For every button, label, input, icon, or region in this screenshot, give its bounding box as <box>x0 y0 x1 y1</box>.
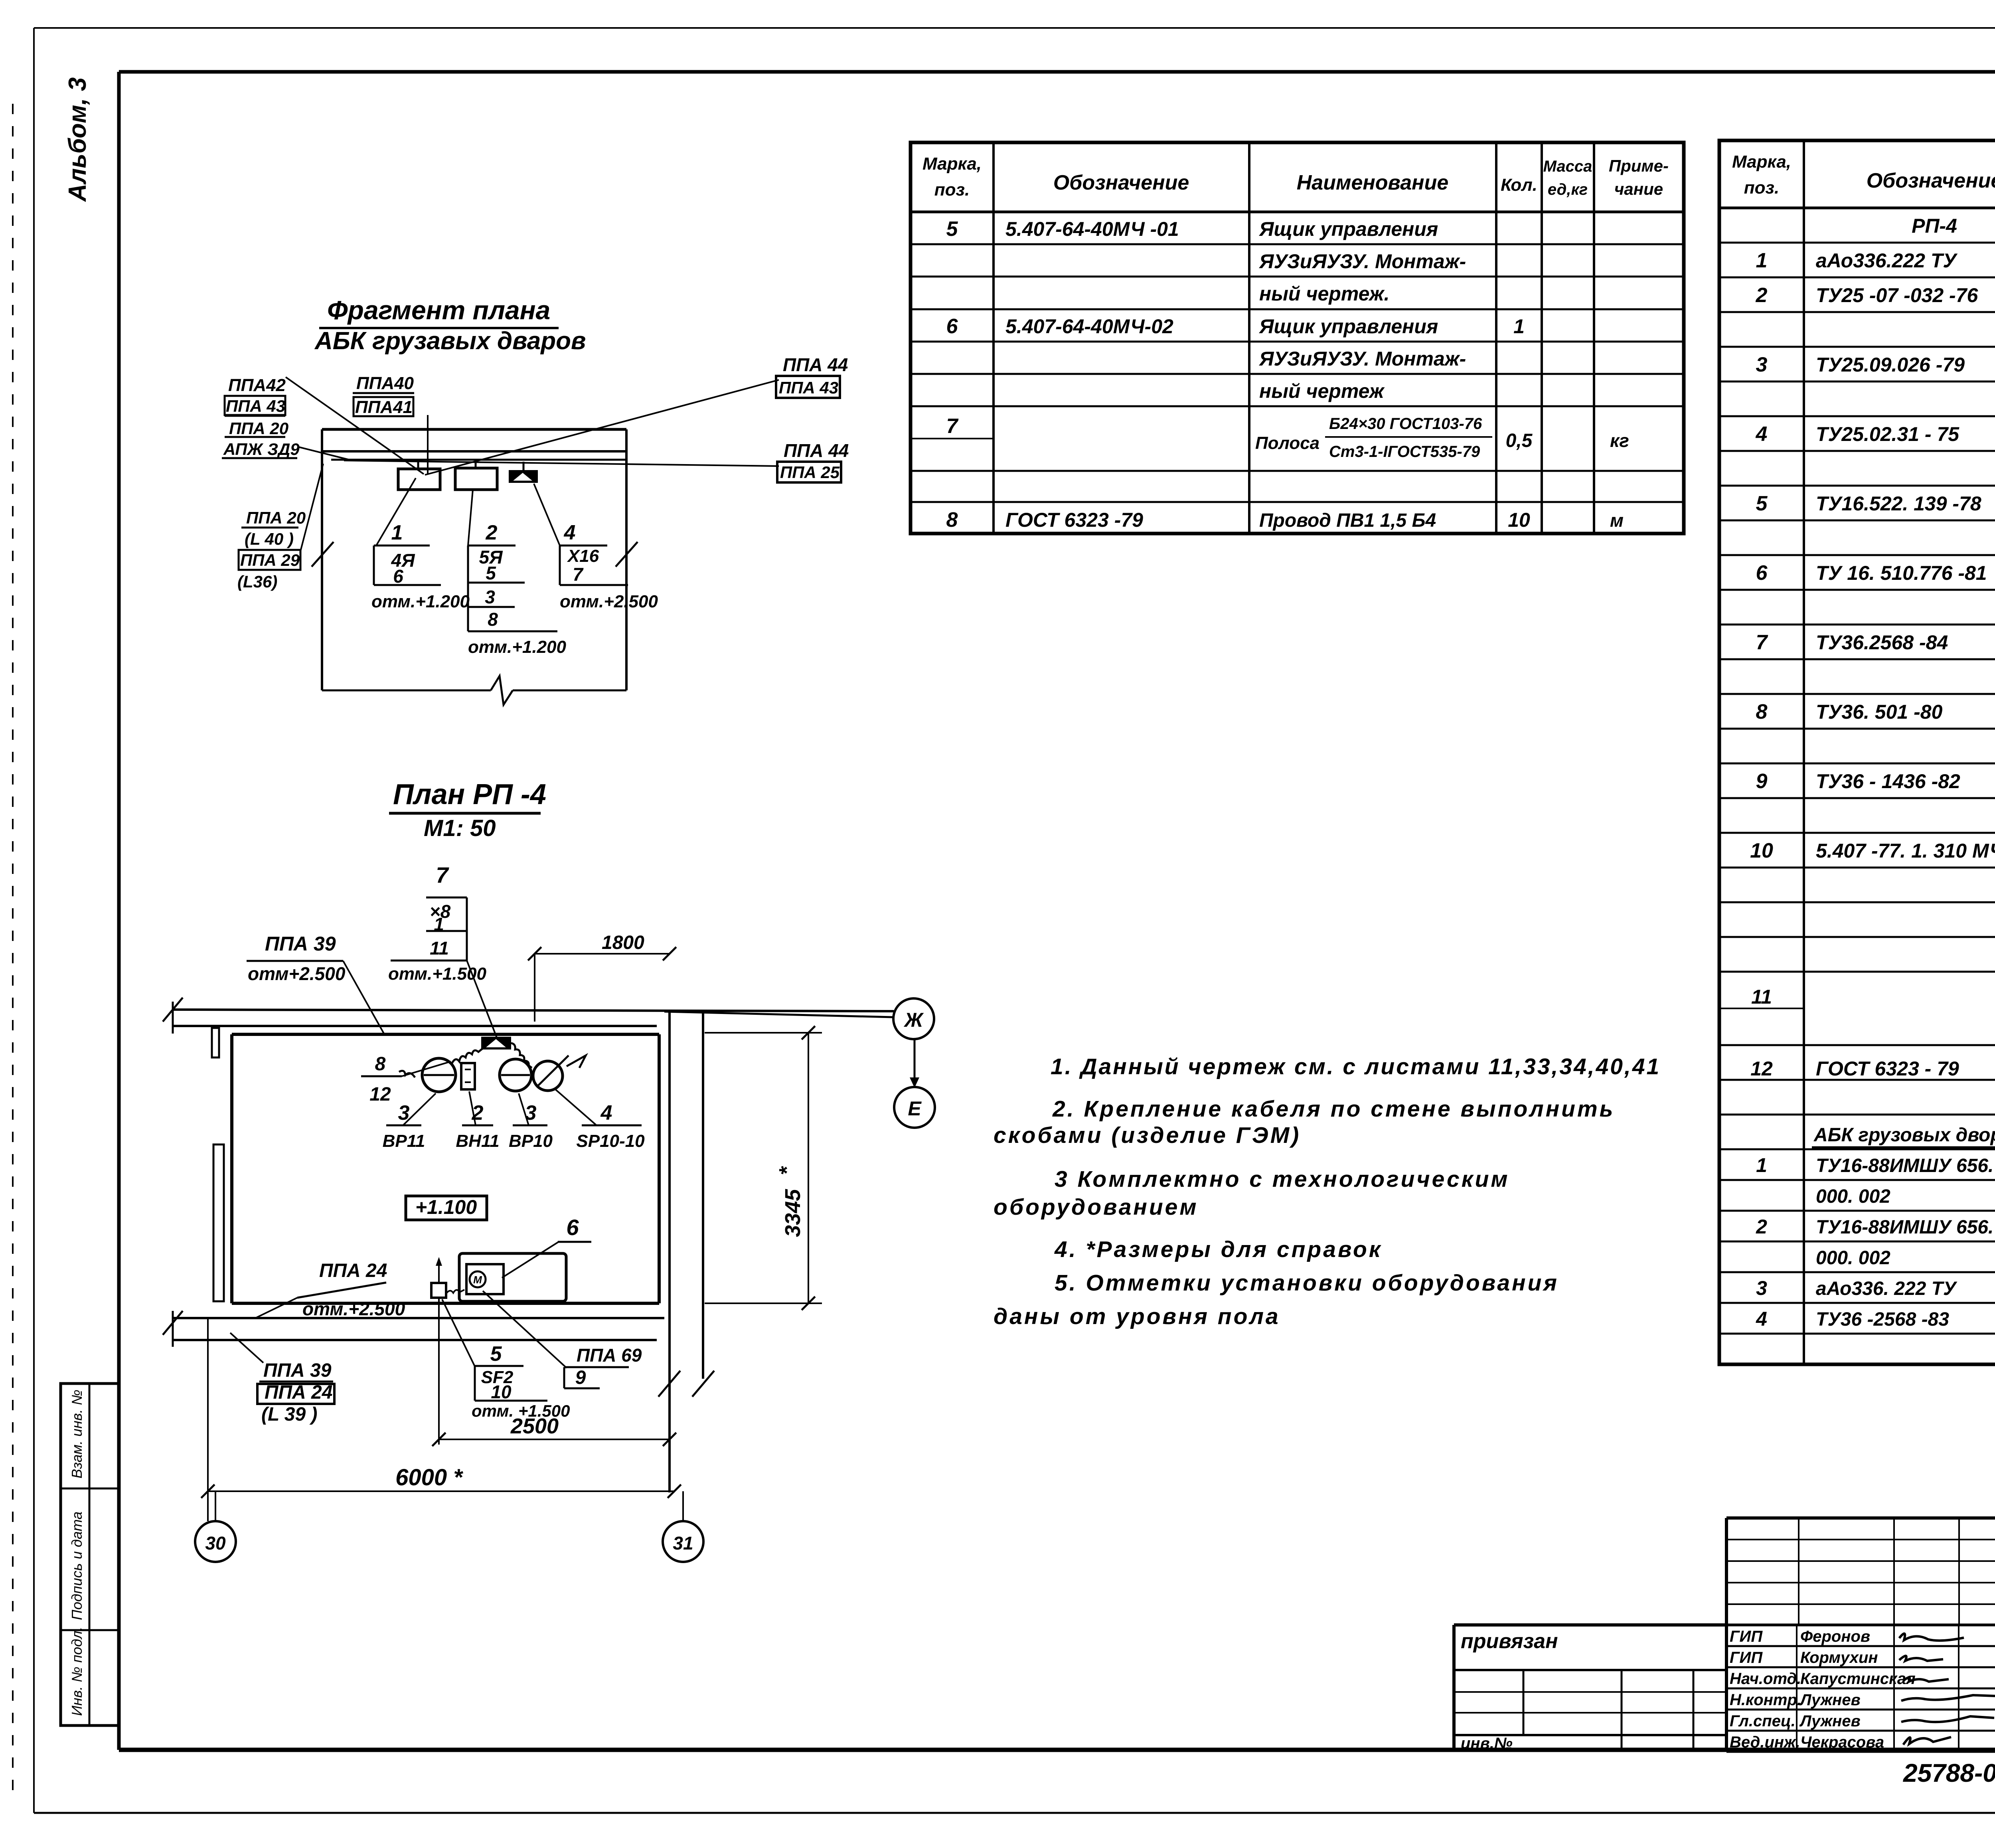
svg-text:5: 5 <box>946 217 958 241</box>
svg-text:2500: 2500 <box>510 1414 559 1438</box>
svg-text:3: 3 <box>1756 1277 1767 1299</box>
plan marker 7 ladder <box>388 862 497 1038</box>
svg-text:000. 002: 000. 002 <box>1816 1247 1890 1269</box>
plan dimension 6000 <box>201 1317 681 1521</box>
svg-text:3345: 3345 <box>781 1189 805 1237</box>
svg-text:7: 7 <box>436 862 449 887</box>
svg-text:2: 2 <box>486 521 498 544</box>
svg-text:чание: чание <box>1614 180 1663 198</box>
fragment marker 4 ladder <box>560 521 658 611</box>
svg-text:8: 8 <box>375 1053 386 1075</box>
svg-text:Феронов: Феронов <box>1800 1628 1870 1645</box>
svg-text:Наименование: Наименование <box>1297 171 1449 194</box>
plan leaders to bottom markers <box>439 1291 567 1445</box>
fragment leader lines <box>286 377 779 553</box>
svg-text:12: 12 <box>1750 1057 1773 1080</box>
svg-text:поз.: поз. <box>934 180 970 200</box>
svg-text:11: 11 <box>1751 986 1772 1008</box>
svg-text:Марка,: Марка, <box>922 154 982 174</box>
plan marker 6 <box>502 1215 591 1278</box>
svg-text:3 Комплектно с технологич: 3 Комплектно с технологическим <box>1055 1166 1510 1192</box>
svg-text:ГОСТ 6323 - 79: ГОСТ 6323 - 79 <box>1816 1057 1959 1080</box>
svg-text:3: 3 <box>485 587 495 607</box>
svg-text:SP10-10: SP10-10 <box>576 1131 645 1151</box>
svg-text:4: 4 <box>600 1101 612 1125</box>
svg-text:9: 9 <box>575 1367 586 1388</box>
svg-text:2. Крепление кабеля по ст: 2. Крепление кабеля по стене выполнить <box>1052 1096 1615 1122</box>
svg-text:ППА 43: ППА 43 <box>226 397 285 415</box>
svg-text:6: 6 <box>393 566 403 587</box>
svg-text:Ст3-1-IГОСТ535-79: Ст3-1-IГОСТ535-79 <box>1329 443 1480 461</box>
svg-text:поз.: поз. <box>1744 178 1779 198</box>
svg-text:ВР11: ВР11 <box>383 1131 425 1151</box>
svg-text:отм+2.500: отм+2.500 <box>248 963 346 984</box>
svg-text:Провод ПВ1 1,5 Б4: Провод ПВ1 1,5 Б4 <box>1259 510 1436 531</box>
left table strip row 7 (Polosa) <box>911 415 1629 461</box>
svg-text:Гл.спец.: Гл.спец. <box>1730 1712 1795 1730</box>
svg-text:ППА41: ППА41 <box>355 397 413 417</box>
svg-text:2: 2 <box>1756 284 1768 307</box>
svg-text:Взам. инв. №: Взам. инв. № <box>69 1389 85 1478</box>
fragment label PPA42 stack <box>222 376 300 459</box>
device valve VR11 <box>422 1058 456 1092</box>
svg-text:ТУ25 -07 -032 -76: ТУ25 -07 -032 -76 <box>1816 284 1978 306</box>
svg-text:ВР10: ВР10 <box>509 1131 553 1151</box>
svg-text:отм.+2.500: отм.+2.500 <box>560 592 658 611</box>
svg-text:Ящик управления: Ящик управления <box>1258 315 1438 338</box>
svg-text:8: 8 <box>488 609 498 630</box>
plan dimension 3345 <box>705 1026 822 1310</box>
svg-text:Обозначение: Обозначение <box>1867 169 1995 192</box>
plan dimension 1800 <box>528 932 676 1022</box>
svg-text:ППА40: ППА40 <box>356 374 414 393</box>
fragment device box 1 <box>398 462 440 490</box>
device valve VR10 <box>500 1059 531 1091</box>
svg-text:ППА 20: ППА 20 <box>246 508 306 527</box>
plan label PPA39 otm+2.500 <box>247 933 385 1036</box>
page edge dashed line <box>12 104 14 1796</box>
svg-text:кг: кг <box>1610 430 1629 451</box>
svg-text:Марка,: Марка, <box>1732 152 1791 172</box>
plan lower corridor walls <box>163 1311 664 1347</box>
plan device labels row <box>383 1089 645 1151</box>
svg-text:отм.+2.500: отм.+2.500 <box>302 1299 405 1319</box>
album label <box>64 77 91 202</box>
svg-text:9: 9 <box>1756 770 1768 793</box>
svg-text:31: 31 <box>673 1533 693 1554</box>
svg-text:10: 10 <box>491 1382 512 1402</box>
grid circle Zh <box>664 998 934 1039</box>
svg-text:ТУ16.522. 139 -78: ТУ16.522. 139 -78 <box>1816 492 1981 515</box>
svg-text:6: 6 <box>1756 561 1768 585</box>
svg-text:000. 002: 000. 002 <box>1816 1186 1890 1207</box>
svg-text:ППА 44: ППА 44 <box>783 354 848 375</box>
svg-text:ППА 20: ППА 20 <box>229 419 288 438</box>
svg-text:Альбом, 3: Альбом, 3 <box>64 77 91 202</box>
svg-text:ный чертеж: ный чертеж <box>1259 380 1385 402</box>
plan floor level +1.100 <box>406 1196 487 1220</box>
svg-text:Инв. № подл.: Инв. № подл. <box>69 1627 85 1716</box>
svg-text:РП-4: РП-4 <box>1912 215 1957 237</box>
svg-text:Нач.отд.: Нач.отд. <box>1730 1670 1801 1688</box>
svg-text:(L 39 ): (L 39 ) <box>261 1404 317 1425</box>
device VN11 <box>461 1063 475 1089</box>
svg-text:привязан: привязан <box>1461 1630 1558 1653</box>
fragment label PPA44-43 right <box>776 354 848 398</box>
title block left box privyazan <box>1454 1625 1726 1752</box>
svg-text:ТУ25.02.31 - 75: ТУ25.02.31 - 75 <box>1816 423 1959 445</box>
svg-text:План РП -4: План РП -4 <box>393 779 546 810</box>
svg-text:4. *Размеры для справок: 4. *Размеры для справок <box>1054 1237 1383 1262</box>
svg-text:Б24×30 ГОСТ103-76: Б24×30 ГОСТ103-76 <box>1329 415 1482 433</box>
svg-text:ТУ36 -2568 -83: ТУ36 -2568 -83 <box>1816 1309 1949 1330</box>
plan RP-4 title <box>389 779 546 841</box>
svg-text:ТУ16-88ИМШУ 656.: ТУ16-88ИМШУ 656. <box>1816 1217 1993 1238</box>
plan dimension 2500 <box>432 1414 676 1453</box>
svg-text:М1: 50: М1: 50 <box>424 815 496 841</box>
svg-text:отм.+1.200: отм.+1.200 <box>371 592 470 611</box>
plan label PPA39-PPA24-L39 <box>230 1333 334 1425</box>
svg-text:(L36): (L36) <box>237 572 277 591</box>
svg-text:5: 5 <box>490 1342 502 1366</box>
svg-text:Е: Е <box>908 1097 922 1120</box>
svg-text:ТУ36. 501 -80: ТУ36. 501 -80 <box>1816 701 1943 723</box>
svg-text:ППА 29: ППА 29 <box>240 551 300 569</box>
svg-text:ППА 44: ППА 44 <box>784 440 849 461</box>
title block signature rows <box>1726 1625 1995 1752</box>
svg-text:ППА 24: ППА 24 <box>319 1260 387 1281</box>
svg-text:ТУ36.2568 -84: ТУ36.2568 -84 <box>1816 631 1948 654</box>
svg-text:ГИП: ГИП <box>1730 1649 1763 1666</box>
svg-text:Обозначение: Обозначение <box>1053 171 1189 194</box>
svg-text:8: 8 <box>946 508 958 532</box>
device manometer SP10-10 <box>533 1055 586 1091</box>
plan top corridor walls <box>163 998 894 1034</box>
svg-text:АБК грузовых дворов: АБК грузовых дворов <box>1813 1125 1995 1146</box>
fragment device box 2 <box>455 461 497 490</box>
svg-text:6000 *: 6000 * <box>395 1465 463 1490</box>
svg-text:ТУ 16. 510.776 -81: ТУ 16. 510.776 -81 <box>1816 562 1987 584</box>
title block revision grid <box>1582 1518 1995 1752</box>
svg-text:ППА 39: ППА 39 <box>263 1360 332 1381</box>
fragment label PPA44-25 right <box>777 440 849 482</box>
svg-text:1800: 1800 <box>602 932 644 953</box>
plan room outline <box>232 1034 659 1303</box>
svg-text:м: м <box>1610 510 1624 531</box>
svg-text:5. Отметки установки обору: 5. Отметки установки оборудования <box>1055 1270 1559 1296</box>
svg-text:30: 30 <box>205 1533 226 1554</box>
plan marker 5-SF2-10 ladder <box>472 1342 570 1420</box>
svg-text:10: 10 <box>1508 509 1530 531</box>
svg-text:5.407 -77. 1. 310 МЧ: 5.407 -77. 1. 310 МЧ <box>1816 840 1995 862</box>
svg-text:7: 7 <box>946 415 959 438</box>
right specification table <box>1719 140 1995 1364</box>
fragment device box 3 <box>509 462 538 483</box>
svg-text:5.407-64-40МЧ-02: 5.407-64-40МЧ-02 <box>1005 315 1173 338</box>
grid circle 30 <box>195 1491 236 1562</box>
grid circle 31 <box>663 1491 703 1562</box>
svg-text:8: 8 <box>1756 700 1768 723</box>
svg-text:ед,кг: ед,кг <box>1548 181 1588 198</box>
plan label PPA69-9 ladder <box>564 1345 642 1388</box>
svg-text:ный чертеж.: ный чертеж. <box>1259 283 1390 305</box>
svg-text:+1.100: +1.100 <box>415 1196 477 1218</box>
svg-text:12: 12 <box>369 1084 391 1105</box>
svg-text:аАо336.222 ТУ: аАо336.222 ТУ <box>1816 249 1958 272</box>
plan equipment box with motor <box>459 1253 566 1301</box>
svg-text:аАо336. 222 ТУ: аАо336. 222 ТУ <box>1816 1278 1957 1299</box>
fragment marker 1 ladder <box>371 521 470 611</box>
svg-text:2: 2 <box>1756 1216 1767 1238</box>
notes text <box>994 1054 1661 1329</box>
right table lower rows text <box>1750 1057 1995 1361</box>
svg-text:Фрагмент плана: Фрагмент плана <box>327 295 550 325</box>
svg-text:отм.+1.200: отм.+1.200 <box>468 637 567 657</box>
svg-text:ЯУЗиЯУЗУ. Монтаж-: ЯУЗиЯУЗУ. Монтаж- <box>1258 250 1466 273</box>
svg-text:1: 1 <box>1513 315 1525 338</box>
plan axis-31 wall <box>658 1010 714 1492</box>
svg-text:3: 3 <box>1756 353 1768 376</box>
svg-text:ВН11: ВН11 <box>456 1131 499 1151</box>
grid circle E <box>894 1039 935 1128</box>
svg-text:АПЖ ЗД9: АПЖ ЗД9 <box>223 440 300 459</box>
svg-text:10: 10 <box>1750 839 1773 862</box>
svg-text:7: 7 <box>1756 631 1768 654</box>
svg-text:Ж: Ж <box>903 1009 924 1031</box>
svg-text:5: 5 <box>1756 492 1768 515</box>
flex conduit squiggles <box>399 1043 532 1077</box>
svg-text:Лужнев: Лужнев <box>1799 1712 1861 1730</box>
svg-text:даны от уровня пола: даны от уровня пола <box>994 1304 1280 1329</box>
svg-text:инв.№: инв.№ <box>1461 1735 1513 1752</box>
plan marker 8-12 <box>361 1053 451 1105</box>
svg-text:Вед.инж.: Вед.инж. <box>1730 1733 1800 1751</box>
svg-text:ППА42: ППА42 <box>228 376 286 395</box>
svg-text:6: 6 <box>566 1215 579 1240</box>
device signal box (triangle) <box>481 1037 511 1050</box>
svg-text:ЯУЗиЯУЗУ. Монтаж-: ЯУЗиЯУЗУ. Монтаж- <box>1258 348 1466 370</box>
svg-text:ТУ16-88ИМШУ 656.: ТУ16-88ИМШУ 656. <box>1816 1155 1993 1176</box>
svg-text:ТУ36 - 1436 -82: ТУ36 - 1436 -82 <box>1816 770 1960 793</box>
svg-text:1: 1 <box>1756 249 1768 272</box>
svg-text:Ящик управления: Ящик управления <box>1258 218 1438 240</box>
svg-text:11: 11 <box>430 938 449 959</box>
svg-text:4: 4 <box>564 521 576 544</box>
fragment marker 2 ladder <box>468 521 567 657</box>
svg-text:Кол.: Кол. <box>1501 175 1537 195</box>
footer inventory numbers <box>1903 1759 1995 1789</box>
svg-text:Подпись и дата: Подпись и дата <box>69 1512 85 1620</box>
left table rows text <box>946 217 1525 402</box>
svg-text:скобами (изделие ГЭМ): скобами (изделие ГЭМ) <box>994 1123 1301 1148</box>
fragment wall <box>312 429 638 705</box>
svg-text:ППА 39: ППА 39 <box>265 933 336 955</box>
fragment plan title <box>314 295 586 355</box>
left specification table <box>911 142 1684 534</box>
svg-text:М: М <box>473 1274 482 1286</box>
left table row 8 (Provod) <box>946 508 1624 532</box>
svg-text:оборудованием: оборудованием <box>994 1194 1199 1220</box>
svg-text:ГОСТ 6323 -79: ГОСТ 6323 -79 <box>1005 509 1143 531</box>
svg-text:Х16: Х16 <box>567 546 599 566</box>
svg-text:(L 40 ): (L 40 ) <box>245 530 294 548</box>
svg-text:ТУ25.09.026 -79: ТУ25.09.026 -79 <box>1816 354 1965 376</box>
svg-text:ППА 25: ППА 25 <box>780 463 840 482</box>
svg-text:Масса: Масса <box>1543 158 1592 175</box>
svg-text:1: 1 <box>1756 1154 1767 1176</box>
svg-text:6: 6 <box>946 315 958 338</box>
fragment label PPA20 L40 stack <box>237 508 306 591</box>
svg-text:4: 4 <box>1756 1308 1767 1330</box>
svg-text:Полоса: Полоса <box>1255 433 1319 453</box>
svg-text:Лужнев: Лужнев <box>1799 1691 1861 1709</box>
plan device SF2 square <box>431 1257 464 1298</box>
svg-text:*: * <box>775 1166 799 1175</box>
svg-text:Н.контр.: Н.контр. <box>1730 1691 1801 1709</box>
left stamp column <box>61 1384 119 1725</box>
svg-text:1. Данный чертеж см. с л: 1. Данный чертеж см. с листами 11,33,34,… <box>1051 1054 1661 1079</box>
svg-text:1: 1 <box>391 521 403 544</box>
svg-text:4: 4 <box>1756 423 1768 446</box>
svg-text:25788-03: 25788-03 <box>1903 1759 1995 1787</box>
plan wall piers <box>212 1028 224 1301</box>
svg-text:Приме-: Приме- <box>1609 156 1669 175</box>
svg-text:Кормухин: Кормухин <box>1800 1649 1878 1666</box>
svg-text:0,5: 0,5 <box>1506 430 1533 451</box>
svg-text:5: 5 <box>486 563 496 583</box>
svg-text:5.407-64-40МЧ -01: 5.407-64-40МЧ -01 <box>1005 218 1179 240</box>
plan label PPA24 otm+2.500 <box>255 1260 405 1319</box>
svg-text:7: 7 <box>573 564 584 585</box>
fragment label PPA40-41 <box>353 374 414 417</box>
svg-text:ГИП: ГИП <box>1730 1628 1763 1645</box>
svg-text:ППА 69: ППА 69 <box>577 1345 642 1366</box>
svg-text:Капустинская: Капустинская <box>1800 1670 1916 1688</box>
right table rows text <box>1750 215 1995 966</box>
right table strip row 11 (Polosa) <box>1719 986 1995 1035</box>
svg-text:ППА 43: ППА 43 <box>779 378 838 397</box>
svg-text:Чекрасова: Чекрасова <box>1800 1733 1884 1751</box>
svg-text:АБК грузавых дваров: АБК грузавых дваров <box>314 327 586 355</box>
